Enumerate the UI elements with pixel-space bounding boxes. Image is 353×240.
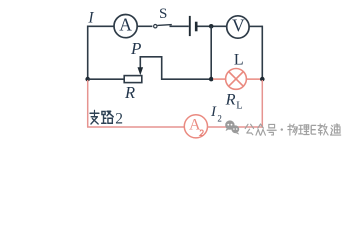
ammeter A	[114, 15, 137, 38]
svg-text:I: I	[87, 9, 94, 26]
watermark middle dot	[281, 128, 283, 130]
svg-text:2: 2	[115, 111, 123, 128]
wire switch to battery	[170, 25, 189, 27]
node junction dot right (lamp right)	[260, 77, 265, 82]
wire red branch2 left vertical	[87, 80, 89, 127]
svg-text:I: I	[210, 104, 217, 120]
battery cell	[190, 16, 196, 36]
wiper P arrow	[138, 57, 144, 76]
switch S	[154, 25, 172, 28]
wire wiper to middle node	[140, 57, 212, 79]
通	[331, 124, 341, 135]
watermark logo (two chat bubbles)	[225, 120, 239, 134]
label I2 (branch current)	[210, 104, 222, 124]
wire red lamp right lead	[246, 78, 262, 80]
wire red lamp left lead	[213, 78, 226, 80]
wire middle vertical (battery branch down)	[210, 26, 212, 79]
svg-text:A: A	[189, 117, 201, 134]
路	[102, 111, 114, 123]
svg-text:L: L	[234, 51, 244, 68]
label RL (lamp resistance)	[225, 90, 243, 111]
svg-text:R: R	[225, 90, 236, 108]
lamp L	[226, 69, 247, 90]
svg-text:L: L	[236, 101, 242, 112]
号	[267, 124, 276, 134]
支	[90, 110, 99, 124]
node junction dot middle (lamp left)	[209, 77, 214, 82]
svg-text:P: P	[130, 39, 141, 58]
wire ammeter to switch	[137, 25, 152, 27]
voltmeter V	[227, 15, 249, 38]
svg-text:V: V	[232, 15, 245, 35]
svg-text:A: A	[119, 15, 132, 35]
wire red branch2 bottom right segment	[208, 126, 263, 128]
公	[245, 124, 253, 134]
wire left node to rheostat	[88, 78, 125, 80]
node junction dot left (top of branch 2)	[85, 77, 90, 82]
理	[299, 125, 309, 135]
label 支路2 (branch 2, hand-drawn glyphs)	[90, 110, 113, 124]
svg-text:2: 2	[217, 113, 222, 123]
node junction dot top (battery/voltmeter branch)	[209, 24, 214, 29]
svg-text:R: R	[124, 83, 135, 102]
wire voltmeter to right corner	[249, 25, 262, 27]
wire top-left horizontal	[88, 25, 114, 27]
物	[288, 124, 297, 135]
svg-text:S: S	[159, 6, 167, 22]
教	[318, 124, 328, 135]
wire red branch2 right vertical	[261, 80, 263, 128]
rheostat R body	[124, 76, 142, 83]
众	[256, 124, 265, 135]
watermark text 公众号 · 物理E教通 (hand-drawn glyphs)	[245, 124, 276, 135]
wire right vertical (voltmeter to lamp node)	[261, 26, 263, 80]
wire battery to voltmeter	[197, 25, 226, 27]
watermark letter E	[311, 125, 316, 134]
wire left vertical	[87, 26, 89, 80]
wire red branch2 bottom left segment	[87, 126, 184, 128]
ammeter A2 (red)	[184, 115, 207, 138]
